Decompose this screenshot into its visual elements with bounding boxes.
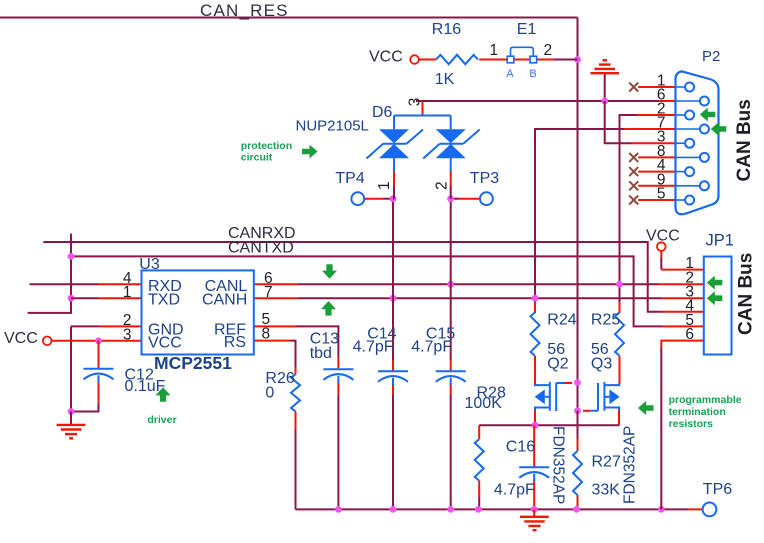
wire Q3 gate link <box>583 410 590 412</box>
svg-text:CAN_RES: CAN_RES <box>200 1 289 20</box>
wire source node horizontal <box>479 424 619 426</box>
wire CAN_RES horizontal top <box>0 17 578 19</box>
connector JP1 body <box>704 257 732 355</box>
wire TXD row <box>71 297 99 299</box>
wire RXD pin stub <box>99 283 142 285</box>
svg-text:CAN Bus: CAN Bus <box>736 253 757 335</box>
no-connect X on P2 pin4 <box>629 167 638 176</box>
wire REF row <box>254 325 297 327</box>
diode D6 unit B (right TVS) <box>423 116 480 172</box>
connector P2 pin1 contact <box>676 86 686 88</box>
arrow left JP1 pin3 <box>707 291 723 305</box>
arrow right (protection circuit) <box>302 145 318 159</box>
wire E1 pin1 to pin2 <box>514 59 530 61</box>
svg-text:R25: R25 <box>591 312 620 329</box>
svg-text:33K: 33K <box>592 481 621 498</box>
wire R25 top lead <box>619 302 621 313</box>
wire JP1 pin6 down to bus <box>661 341 704 348</box>
wire C16 top lead <box>533 425 535 467</box>
node GND line junction <box>601 98 608 105</box>
wire JP1 pin4 stub <box>662 311 704 313</box>
svg-text:0.1uF: 0.1uF <box>125 378 166 395</box>
wire JP1 pin5 stub <box>662 325 704 327</box>
jumper E1 <box>507 56 514 63</box>
wire left stub vertical <box>28 234 71 313</box>
wire R24 top lead <box>534 302 536 313</box>
svg-text:1: 1 <box>490 42 499 59</box>
wire P2 pin9 stub <box>638 185 675 187</box>
wire R27 top lead <box>577 411 579 438</box>
arrow left P2 pin7 <box>711 122 727 136</box>
node bus junction C15 <box>447 506 454 513</box>
svg-text:U3: U3 <box>139 256 160 273</box>
svg-text:termination: termination <box>669 406 726 418</box>
wire RXD row <box>30 283 99 285</box>
connector P2 pin5 contact <box>676 199 686 201</box>
wire CAN_RES vertical column <box>577 18 579 383</box>
power VCC right circle <box>657 242 666 251</box>
wire CANH row <box>254 297 298 299</box>
wire JP1 pin1 from VCC <box>660 251 662 258</box>
wire P2 pin3 link <box>605 101 631 143</box>
svg-text:E1: E1 <box>517 21 537 38</box>
svg-text:resistors: resistors <box>669 418 714 430</box>
node Q2 gate junction <box>574 379 581 386</box>
wire R26 column to bus corner <box>295 430 297 509</box>
svg-text:FDN352AP: FDN352AP <box>622 426 639 504</box>
svg-text:P2: P2 <box>702 48 720 65</box>
capacitor C14 <box>378 371 408 385</box>
wire R24 bottom lead / Q2 drain <box>534 356 536 384</box>
arrow up (CANH direction) <box>321 301 336 316</box>
connector P2 shell <box>676 71 719 214</box>
svg-text:0: 0 <box>265 384 274 401</box>
wire D6 top bar <box>394 115 451 117</box>
wire D6 left bottom lead <box>393 171 395 186</box>
power VCC left circle <box>43 337 52 346</box>
wire P2 pin8 stub <box>638 156 675 158</box>
svg-text:CAN Bus: CAN Bus <box>734 99 755 181</box>
resistor R27 <box>573 451 582 495</box>
wire TP6 stub <box>688 508 702 510</box>
svg-text:TP6: TP6 <box>703 481 732 498</box>
arrow left P2 pin2 <box>700 108 716 122</box>
arrow left JP1 pin2 <box>707 276 723 290</box>
wire TP3 link <box>451 198 459 200</box>
wire C14 column <box>392 199 394 360</box>
svg-text:3: 3 <box>407 98 424 107</box>
node ground junction left <box>68 408 75 415</box>
svg-text:B: B <box>529 68 536 80</box>
wire P2 pin4 stub <box>638 171 675 173</box>
no-connect X on P2 pin5 <box>629 196 638 205</box>
node R24 on CANH <box>532 295 539 302</box>
svg-text:D6: D6 <box>372 104 393 121</box>
wire C13 top lead <box>337 358 339 368</box>
svg-text:VCC: VCC <box>148 335 182 352</box>
capacitor C15 <box>436 371 466 385</box>
node VCC / C12 junction <box>95 337 102 344</box>
wire P2 pin1 stub <box>638 86 675 88</box>
node bus junction C14 <box>390 506 397 513</box>
node Q3 gate junction <box>574 407 581 414</box>
svg-text:4.7pF: 4.7pF <box>353 338 394 355</box>
resistor R24 <box>531 312 540 355</box>
wire CANTXD line <box>71 256 662 326</box>
wire R26 top lead <box>295 367 297 374</box>
svg-text:7: 7 <box>264 284 273 301</box>
svg-text:CANH: CANH <box>202 291 247 308</box>
wire R28 top lead <box>478 425 480 439</box>
resistor R28 <box>475 439 484 480</box>
svg-text:VCC: VCC <box>646 228 680 245</box>
svg-text:5: 5 <box>657 186 666 203</box>
svg-text:RS: RS <box>224 334 246 351</box>
arrow left (termination resistors) <box>638 401 654 415</box>
wire GND vertical to ground <box>71 326 100 411</box>
svg-text:Q2: Q2 <box>547 355 568 372</box>
wire C15 column <box>450 199 452 360</box>
diode D6 unit A (left TVS) <box>367 116 424 172</box>
wire TXD pin stub <box>99 297 142 299</box>
capacitor C12 <box>84 369 114 383</box>
wire R28 to bus <box>478 497 480 509</box>
wire Q2 source lead <box>534 409 536 425</box>
connector P2 pin7 contact <box>676 128 700 130</box>
resistor R25 <box>615 312 624 355</box>
wire R16 to E1 pin1 <box>479 59 507 61</box>
testpoint TP4 <box>351 192 364 205</box>
resistor R16 <box>436 55 478 64</box>
arrow up (driver) <box>156 387 171 402</box>
connector P2 pin3 contact <box>676 142 686 144</box>
arrow down (CANL direction) <box>322 264 337 279</box>
connector P2 pin6 contact <box>676 100 700 102</box>
wire C15 bottom lead <box>450 383 452 395</box>
svg-text:2: 2 <box>544 42 553 59</box>
wire CANRXD line <box>43 242 662 312</box>
testpoint TP3 <box>480 192 493 205</box>
svg-text:8: 8 <box>262 325 271 342</box>
node R25 on CANL <box>616 281 623 288</box>
node bus junction R27 <box>573 506 580 513</box>
wire ground bus bottom <box>296 508 689 510</box>
svg-text:circuit: circuit <box>241 152 273 164</box>
svg-text:CANTXD: CANTXD <box>228 240 294 257</box>
svg-text:FDN352AP: FDN352AP <box>550 426 567 504</box>
testpoint TP6 <box>703 503 717 517</box>
wire C15 column to bus <box>450 395 452 509</box>
svg-text:1: 1 <box>123 284 132 301</box>
connector P2 pin8 contact <box>676 156 700 158</box>
wire CAN_RES gate link segment <box>577 383 579 411</box>
svg-text:3: 3 <box>123 326 132 343</box>
node CAN_RES / E1 junction <box>574 56 581 63</box>
wire C12 to ground <box>71 403 99 412</box>
wire Q3 source lead <box>618 409 620 425</box>
wire R26 bottom lead <box>295 411 297 430</box>
wire C13 column to bus <box>337 395 339 509</box>
wire C13 bottom lead <box>337 381 339 396</box>
svg-text:programmable: programmable <box>669 394 742 406</box>
wire C14 bottom lead <box>392 383 394 395</box>
connector P2 pin9 contact <box>676 185 700 187</box>
svg-text:VCC: VCC <box>369 49 403 66</box>
svg-text:C16: C16 <box>506 439 535 456</box>
wire GND / D6 pin3 / P2 pin6 line <box>416 100 659 102</box>
node C14 on CANH <box>390 295 397 302</box>
wire P2 pin7 stub <box>624 128 676 130</box>
wire VCC pin row <box>52 340 142 342</box>
node TXD junction <box>68 295 75 302</box>
node C15 on CANL <box>447 281 454 288</box>
node Q2 source junction <box>532 422 539 429</box>
svg-text:TP4: TP4 <box>335 170 364 187</box>
svg-text:driver: driver <box>147 414 176 426</box>
transistor Q3 (P-MOSFET, mirrored) <box>590 382 619 411</box>
wire R27 bottom lead <box>577 495 579 509</box>
ground left (C12) <box>57 412 86 439</box>
wire C14 top lead <box>392 360 394 371</box>
node bus junction R28 <box>475 506 482 513</box>
capacitor C13 <box>323 369 353 383</box>
resistor R26 <box>291 374 300 411</box>
svg-text:6: 6 <box>685 326 694 343</box>
transistor Q2 (P-MOSFET) <box>535 382 565 411</box>
node bus junction JP1 pin6 <box>658 506 665 513</box>
node CANTXD junction <box>68 253 75 260</box>
svg-text:MCP2551: MCP2551 <box>154 353 232 373</box>
wire C14 column to bus <box>392 395 394 509</box>
wire P2 pin2 to CANL column <box>620 115 638 302</box>
wire P2 pin5 stub <box>638 199 675 201</box>
svg-text:Q3: Q3 <box>591 355 612 372</box>
svg-text:R24: R24 <box>547 312 576 329</box>
wire CANH JP1 stub <box>662 297 704 299</box>
wire Q2 gate link <box>565 382 573 384</box>
node TP4 junction <box>390 195 397 202</box>
wire D6 right bottom lead <box>450 171 452 186</box>
connector P2 pin2 contact <box>676 114 686 116</box>
node bus junction C13 <box>335 506 342 513</box>
power VCC top circle <box>410 55 419 64</box>
svg-text:protection: protection <box>241 140 292 152</box>
wire VCC to R16 <box>419 59 436 61</box>
wire CANL row <box>254 283 298 285</box>
svg-text:R27: R27 <box>592 454 621 471</box>
svg-text:JP1: JP1 <box>706 232 734 250</box>
svg-text:4.7pF: 4.7pF <box>411 338 452 355</box>
connector P2 pin4 contact <box>676 171 686 173</box>
wire P2 pin6 stub <box>659 100 676 102</box>
wire D6 pin3 stub <box>422 101 424 116</box>
wire CANL JP1 stub <box>659 283 704 285</box>
svg-text:NUP2105L: NUP2105L <box>296 118 369 135</box>
ground bottom (C16) <box>520 509 549 530</box>
wire R25 bottom lead / Q3 drain <box>619 356 621 384</box>
svg-text:VCC: VCC <box>4 330 38 347</box>
svg-text:A: A <box>506 68 514 80</box>
wire P2 pin2 stub <box>637 114 676 116</box>
wire C16 bottom lead <box>533 479 535 509</box>
wire TP4 link <box>364 198 383 200</box>
ground top right (inverted) <box>591 60 620 73</box>
no-connect X on P2 pin1 <box>629 83 638 92</box>
wire C12 top lead <box>98 341 100 368</box>
no-connect X on P2 pin9 <box>629 181 638 190</box>
svg-text:R16: R16 <box>432 21 461 38</box>
wire C15 top lead <box>450 360 452 371</box>
svg-text:2: 2 <box>434 181 451 190</box>
svg-text:1: 1 <box>376 181 393 190</box>
wire E1 pin2 out <box>537 59 554 61</box>
wire R28 bottom lead <box>478 481 480 498</box>
wire ground stem top right <box>604 74 606 102</box>
wire P2 pin3 stub <box>631 142 676 144</box>
wire C12 bottom lead <box>98 381 100 403</box>
svg-text:100K: 100K <box>465 395 503 412</box>
capacitor C16 <box>519 467 549 481</box>
no-connect X on P2 pin8 <box>629 153 638 162</box>
svg-text:tbd: tbd <box>310 345 332 362</box>
wire GND pin row <box>100 325 142 327</box>
node TP3 junction <box>447 195 454 202</box>
svg-text:TXD: TXD <box>148 291 180 308</box>
wire P2 pin7 to CANH column <box>535 129 624 302</box>
op-amp U3 MCP2551 body <box>142 270 254 354</box>
svg-text:4.7pF: 4.7pF <box>494 481 535 498</box>
wire RS row <box>254 340 291 342</box>
svg-text:1K: 1K <box>435 71 455 88</box>
svg-text:TP3: TP3 <box>470 170 499 187</box>
node bus junction C16 <box>531 506 538 513</box>
